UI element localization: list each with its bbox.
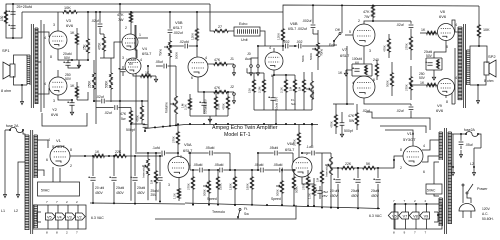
wire V6A cathode <box>302 177 314 184</box>
capacitor .02uf V2 grid <box>96 107 114 109</box>
wire SP1 bottom <box>14 76 28 85</box>
svg-text:2: 2 <box>414 199 416 203</box>
svg-text:V5A: V5A <box>184 142 192 147</box>
svg-text:Tone: Tone <box>320 49 324 56</box>
svg-text:7: 7 <box>404 199 406 203</box>
resistor 1K V8 grid <box>426 32 437 35</box>
svg-text:5w: 5w <box>121 117 126 121</box>
svg-text:270K: 270K <box>187 183 191 190</box>
resistor 2.2M <box>263 79 266 93</box>
resistor 470K right <box>388 38 391 53</box>
capacitor 20ufd 450V c <box>134 156 136 176</box>
svg-text:470K: 470K <box>136 115 140 122</box>
svg-text:4: 4 <box>423 144 425 148</box>
capacitor 20ufd 50V <box>65 63 70 65</box>
resistor 120K V6B <box>282 28 285 42</box>
svg-text:1M: 1M <box>150 179 154 184</box>
svg-text:Model ET-1: Model ET-1 <box>224 132 251 138</box>
wire jack ground bus <box>190 115 228 117</box>
svg-text:.1ufd: .1ufd <box>152 146 160 150</box>
svg-text:5Y3GT: 5Y3GT <box>403 137 416 142</box>
ground V3 cathode <box>78 60 80 68</box>
svg-text:22K: 22K <box>345 162 352 166</box>
svg-text:3: 3 <box>168 183 170 187</box>
svg-text:47K: 47K <box>348 114 355 118</box>
svg-text:20 ufd: 20 ufd <box>95 186 104 190</box>
svg-text:500K: 500K <box>203 189 207 196</box>
resistor 120K left <box>196 28 199 41</box>
svg-text:120K: 120K <box>218 183 222 190</box>
resistor 470K tremolo left <box>141 105 144 121</box>
svg-text:V2: V2 <box>77 216 82 220</box>
svg-text:7: 7 <box>76 231 78 235</box>
wire V6B cathode <box>274 70 295 75</box>
svg-text:Echo: Echo <box>239 22 247 26</box>
capacitor 20ufd 450V a <box>92 156 94 176</box>
svg-text:.02uf: .02uf <box>104 111 112 115</box>
capacitor .02uf right lower <box>410 104 412 106</box>
wire long vertical a <box>40 20 42 112</box>
svg-text:47K: 47K <box>117 13 124 17</box>
wire V4B plate <box>135 25 137 58</box>
wire volume bottoms to rail <box>254 109 312 111</box>
svg-text:1.5K: 1.5K <box>308 193 312 199</box>
svg-text:5K: 5K <box>366 162 371 166</box>
svg-text:.002: .002 <box>296 40 303 44</box>
svg-text:.02uf: .02uf <box>396 23 404 27</box>
svg-text:25V: 25V <box>322 194 328 198</box>
potentiometer 500K speed right <box>281 180 284 194</box>
capacitor .05ufd row c <box>261 168 263 173</box>
speaker SP2 <box>484 62 489 75</box>
wire T3 taps <box>455 28 458 32</box>
wire osc row right <box>248 169 260 171</box>
svg-text:470K: 470K <box>330 121 334 128</box>
heater pin stubs right <box>394 204 396 212</box>
svg-text:22K: 22K <box>115 150 122 154</box>
svg-text:V8: V8 <box>413 215 418 219</box>
svg-text:470K: 470K <box>222 103 226 110</box>
svg-text:27: 27 <box>218 25 222 29</box>
svg-text:V5: V5 <box>47 216 52 220</box>
resistor 470K upper left <box>103 36 106 52</box>
svg-text:7: 7 <box>56 200 58 204</box>
svg-text:20ufd: 20ufd <box>371 189 379 193</box>
resistor 10K right <box>478 6 480 24</box>
resistor 1K V2 <box>76 86 79 98</box>
svg-text:SP2: SP2 <box>488 54 496 59</box>
wire left box edges <box>229 153 231 170</box>
svg-text:7: 7 <box>414 231 416 235</box>
wire aux grid bus <box>247 72 264 74</box>
resistor 5.6M <box>215 96 218 110</box>
heater V3 left <box>66 213 76 220</box>
tube V10 5Y3GT <box>403 146 423 166</box>
svg-text:A.C.: A.C. <box>482 212 488 216</box>
resistor 270K phase right <box>307 176 310 190</box>
wire mains L2 <box>18 162 25 190</box>
svg-text:5.6M: 5.6M <box>216 103 220 110</box>
resistor 470K tremolo right <box>335 114 338 128</box>
svg-text:130: 130 <box>0 15 4 21</box>
svg-text:3: 3 <box>53 23 55 27</box>
resistor 1K filter <box>93 155 105 158</box>
capacitor 500pf right <box>340 123 345 125</box>
resistor 25K <box>87 38 90 54</box>
capacitor .002 b <box>299 44 301 49</box>
heater V4 left <box>55 213 65 220</box>
svg-text:5: 5 <box>349 30 351 34</box>
svg-text:.05ufd: .05ufd <box>269 146 278 150</box>
svg-text:8: 8 <box>56 231 58 235</box>
resistor 1K V4 cathode <box>140 75 152 78</box>
wire fuse to T2 <box>23 130 25 136</box>
capacitor .002uf tone right <box>312 6 314 24</box>
svg-text:2: 2 <box>76 200 78 204</box>
capacitor 25uf 25V right <box>317 191 322 193</box>
svg-text:50-60H.: 50-60H. <box>482 217 494 221</box>
resistor 47K J2 <box>213 91 228 94</box>
svg-text:Sw.: Sw. <box>291 102 296 106</box>
tube V4B 6SL7 <box>125 58 141 74</box>
capacitor .002 a <box>286 44 288 49</box>
wire V2 plate <box>57 70 59 77</box>
jack J2 <box>233 93 236 96</box>
wire SP1 top <box>14 55 28 64</box>
heater V8 right <box>409 212 419 219</box>
svg-text:15K: 15K <box>248 88 252 93</box>
svg-text:L1: L1 <box>1 209 5 213</box>
wire right top rail <box>283 5 479 12</box>
svg-text:500pf: 500pf <box>126 128 135 132</box>
svg-text:J2: J2 <box>230 85 234 89</box>
svg-text:8: 8 <box>46 231 48 235</box>
wire vertical x96 <box>95 12 97 124</box>
resistor 500K lower left <box>110 72 113 90</box>
tube V9 6V6 <box>438 79 455 96</box>
switch Power <box>462 184 464 186</box>
svg-text:6SL7: 6SL7 <box>183 148 193 153</box>
svg-text:1K: 1K <box>420 81 425 85</box>
wire filter mid <box>105 155 113 157</box>
capacitor 20ufd 450V b <box>113 156 115 176</box>
wire V10 plates to T4 <box>422 140 439 150</box>
svg-text:.05ufd: .05ufd <box>193 163 203 167</box>
svg-text:500pf: 500pf <box>344 129 353 133</box>
capacitor .05uf line <box>460 134 462 141</box>
resistor 270K V6A plate <box>298 132 301 146</box>
svg-text:L1: L1 <box>448 162 452 166</box>
svg-text:120K: 120K <box>191 32 195 40</box>
wire V10 top loop <box>385 130 413 146</box>
svg-text:.02uf: .02uf <box>91 19 99 23</box>
wire echo feed <box>210 4 213 31</box>
resistor 1.5K V6A cathode <box>313 184 316 196</box>
capacitor .05ufd row d <box>280 168 282 173</box>
heater winding stub right <box>434 212 438 222</box>
svg-text:Unit: Unit <box>241 38 248 42</box>
wire V10 output <box>394 156 403 160</box>
svg-text:500K: 500K <box>294 186 298 193</box>
wire right cluster <box>333 103 354 105</box>
svg-text:20 ufd: 20 ufd <box>330 189 339 193</box>
svg-text:500K: 500K <box>386 80 390 87</box>
svg-text:J0: J0 <box>247 52 251 56</box>
svg-text:1.5K: 1.5K <box>172 193 176 199</box>
wire V3 cathode <box>58 49 72 60</box>
plug 120V AC <box>459 204 475 211</box>
ground V7 cathode <box>346 69 352 71</box>
svg-text:500K: 500K <box>309 52 313 60</box>
svg-text:V9: V9 <box>424 215 429 219</box>
svg-text:2: 2 <box>400 166 402 170</box>
resistor 1M tremolo left <box>155 170 158 184</box>
heater V7 right <box>399 212 409 219</box>
potentiometer 500K speed left <box>208 180 211 194</box>
svg-text:470K: 470K <box>98 42 102 50</box>
terminal L2 right <box>473 168 476 176</box>
wire to V6A grid <box>292 153 294 163</box>
resistor 250K lower left <box>93 72 96 90</box>
resistor 270K phase left <box>192 176 195 190</box>
wire T1 center tap <box>38 61 41 63</box>
capacitor 10ufd 25V V6B <box>270 98 275 100</box>
resistor 120K phase left <box>217 176 220 190</box>
wire fuse corner <box>478 134 481 148</box>
wire V3 plate up <box>57 12 59 31</box>
svg-text:5W: 5W <box>349 119 355 123</box>
capacitor .002uf tone left <box>169 12 171 29</box>
wire SP2 ground stem <box>477 85 479 96</box>
capacitor .05ufd row b <box>220 168 222 173</box>
tube V6B 6SL7 <box>265 52 283 70</box>
svg-text:1K: 1K <box>95 150 100 154</box>
wire power to plug <box>462 186 464 203</box>
resistor 47K 7W left <box>130 12 133 23</box>
capacitor 20ufd 450V f <box>377 168 379 178</box>
svg-text:Speed: Speed <box>271 197 281 201</box>
svg-text:Intensity: Intensity <box>325 165 329 177</box>
svg-text:2: 2 <box>306 152 308 156</box>
svg-text:5VAC: 5VAC <box>41 189 50 193</box>
wire tone to switch <box>313 33 318 35</box>
wire top left rail <box>6 4 210 24</box>
wire T2 HV top <box>38 140 49 148</box>
cathode box V7 <box>352 63 372 65</box>
svg-text:fuse2A: fuse2A <box>464 128 476 132</box>
svg-text:.05ufd: .05ufd <box>254 163 264 167</box>
resistor 240 V7B <box>376 63 379 77</box>
svg-text:6V6: 6V6 <box>436 108 444 113</box>
wire jack bus drop <box>209 119 211 124</box>
wire footswitch rail <box>155 205 296 219</box>
svg-text:Echo: Echo <box>329 43 337 47</box>
svg-text:130K: 130K <box>229 183 233 190</box>
wire V1 filament to 5VAC <box>52 167 54 182</box>
wire B+ left <box>127 155 163 157</box>
potentiometer Intensity left <box>147 158 150 176</box>
svg-text:6SL7: 6SL7 <box>173 25 183 30</box>
svg-text:.002uf: .002uf <box>302 19 311 23</box>
svg-text:Power: Power <box>477 187 488 191</box>
svg-text:8: 8 <box>50 55 52 59</box>
svg-text:7: 7 <box>393 199 395 203</box>
resistor 1K V3 <box>76 33 79 45</box>
resistor 1M right a <box>294 79 297 93</box>
svg-text:10K: 10K <box>483 28 490 32</box>
potentiometer Volume 1M left <box>175 95 178 115</box>
svg-text:6V: 6V <box>355 61 360 65</box>
svg-text:Volume: Volume <box>311 89 315 100</box>
wire V7A cathode <box>363 46 365 64</box>
wire echo switch drop <box>346 46 348 104</box>
wire V9 cathode <box>445 96 447 99</box>
heater box right <box>394 204 442 229</box>
svg-text:Intensity: Intensity <box>142 166 146 178</box>
svg-text:3: 3 <box>53 99 55 103</box>
wire cap loop bottom <box>6 12 22 38</box>
capacitor 25+25ufd <box>12 4 14 38</box>
svg-text:L2: L2 <box>470 162 474 166</box>
svg-text:7: 7 <box>425 231 427 235</box>
svg-text:1K: 1K <box>338 71 343 75</box>
svg-text:1K: 1K <box>70 84 75 88</box>
capacitor .05ufd V6A in <box>258 152 274 154</box>
resistor 1.5K V5A cathode <box>178 188 181 199</box>
cathode box right <box>426 57 442 59</box>
svg-text:SP1: SP1 <box>2 48 10 53</box>
svg-text:7W: 7W <box>364 15 370 19</box>
tube V5B 6SL7 <box>188 57 208 77</box>
svg-text:1K: 1K <box>421 28 426 32</box>
wire left box left edge <box>189 153 191 170</box>
svg-text:25+25ufd: 25+25ufd <box>17 5 32 9</box>
svg-text:5Y3GT: 5Y3GT <box>52 144 65 149</box>
svg-text:J1: J1 <box>230 57 234 61</box>
wire V2 cathode <box>58 95 72 100</box>
resistor 270K right lower <box>410 76 413 91</box>
svg-text:47K: 47K <box>214 86 221 90</box>
wire V2 label loop <box>42 113 87 126</box>
svg-text:50V: 50V <box>426 54 433 58</box>
svg-text:4: 4 <box>44 82 46 86</box>
tube V6A 6SL7 <box>292 157 312 177</box>
terminal L2 <box>17 190 20 198</box>
svg-text:2.2K: 2.2K <box>280 87 284 93</box>
wire SP1 ground stem <box>21 85 23 97</box>
resistor 47K J1 <box>213 63 228 66</box>
heater pin stubs left <box>47 205 49 213</box>
svg-text:1K: 1K <box>70 31 75 35</box>
svg-text:6.3 VAC: 6.3 VAC <box>91 216 104 220</box>
wire T2 HV bottom <box>38 170 45 176</box>
capacitor .02uf upper left <box>99 12 101 23</box>
wire mains feed <box>5 129 10 131</box>
5VAC winding box <box>38 182 80 196</box>
speaker SP1 <box>10 64 15 77</box>
svg-text:.02uf: .02uf <box>396 109 404 113</box>
svg-text:Sw.: Sw. <box>244 212 249 216</box>
resistor 470K jack <box>227 96 230 110</box>
svg-text:4: 4 <box>44 36 46 40</box>
svg-text:9: 9 <box>404 231 406 235</box>
fuse 2A right <box>466 132 478 137</box>
capacitor .05ufd row a <box>200 168 202 173</box>
resistor 27 ohm <box>213 30 229 33</box>
heater box left <box>33 205 86 229</box>
svg-text:3: 3 <box>122 56 124 60</box>
wire V6B plate <box>273 48 275 52</box>
svg-text:120K: 120K <box>277 32 281 40</box>
transformer T2 <box>25 135 29 229</box>
wire SP2 bottom <box>470 76 486 86</box>
svg-text:8: 8 <box>400 148 402 152</box>
tube V5A 6SL7 <box>168 157 189 178</box>
svg-text:500K: 500K <box>105 80 109 88</box>
resistor 270K tremolo left <box>177 131 180 145</box>
svg-text:50V: 50V <box>65 77 72 81</box>
wire x312 vertical <box>311 124 313 146</box>
resistor 500K phase right <box>293 176 296 190</box>
jack J1 <box>233 65 236 68</box>
resistor 500K right lower <box>391 72 394 87</box>
heater V5 right <box>388 212 398 219</box>
svg-text:47K: 47K <box>363 10 370 14</box>
wire V4A plate to volume cap <box>138 37 148 39</box>
wire T1 to V3 plate <box>38 32 49 37</box>
svg-text:4: 4 <box>269 46 271 50</box>
svg-text:2: 2 <box>66 231 68 235</box>
svg-text:6: 6 <box>191 76 193 80</box>
terminal L1 <box>4 190 7 198</box>
capacitor 20ufd 450V e <box>357 168 359 178</box>
svg-text:1M: 1M <box>289 86 293 91</box>
resistor 130K phase left <box>234 176 237 190</box>
wire V8 plate <box>452 20 455 28</box>
svg-text:7: 7 <box>46 200 48 204</box>
svg-text:450V: 450V <box>95 191 104 195</box>
svg-text:V3: V3 <box>67 216 72 220</box>
resistor 22K right <box>341 167 355 170</box>
switch echo off <box>333 40 335 42</box>
svg-text:V6B: V6B <box>290 21 298 26</box>
svg-text:2.2M: 2.2M <box>258 86 262 93</box>
svg-text:Tremolo: Tremolo <box>212 210 225 214</box>
svg-text:2: 2 <box>70 164 72 168</box>
wire ground rail center <box>185 203 380 209</box>
heater winding stub left <box>37 212 41 222</box>
svg-text:2: 2 <box>125 26 127 30</box>
svg-text:8: 8 <box>393 231 395 235</box>
svg-text:250K: 250K <box>88 80 92 88</box>
svg-text:2: 2 <box>358 19 360 23</box>
wire V9 plate <box>452 93 455 104</box>
resistor 1M right b <box>303 79 306 93</box>
wire V1 output <box>70 155 93 157</box>
wire plate node to .02uf <box>373 20 411 22</box>
capacitor 25ufd 25V <box>159 156 161 176</box>
svg-text:47K: 47K <box>214 58 221 62</box>
wire V7A grid <box>345 34 353 36</box>
svg-text:6V6: 6V6 <box>439 14 447 19</box>
svg-text:470K: 470K <box>383 45 387 52</box>
resistor 2.2K V5B <box>189 98 192 110</box>
svg-text:450V: 450V <box>351 194 360 198</box>
wire b+ right row <box>330 167 341 169</box>
resistor 270K right <box>410 36 413 51</box>
svg-text:4: 4 <box>48 138 50 142</box>
svg-text:1M: 1M <box>316 177 320 182</box>
